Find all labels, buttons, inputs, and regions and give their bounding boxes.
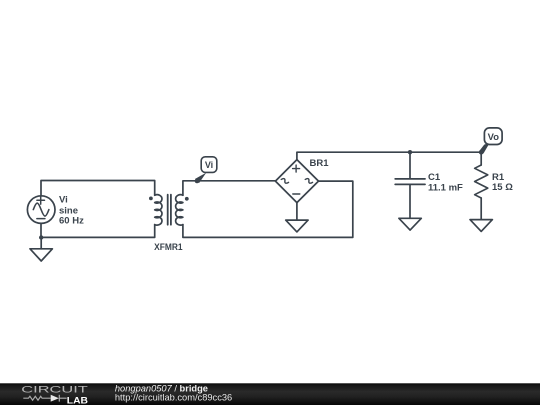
svg-text:LAB: LAB bbox=[67, 395, 88, 405]
svg-text:http://circuitlab.com/c89cc36: http://circuitlab.com/c89cc36 bbox=[115, 393, 232, 403]
net flag Vi bbox=[195, 157, 217, 184]
capacitor C1 bbox=[395, 152, 425, 218]
svg-text:Vi: Vi bbox=[205, 160, 213, 170]
voltage source V1 Vi sine 60 Hz bbox=[27, 196, 55, 224]
svg-text:BR1: BR1 bbox=[310, 158, 330, 169]
wire bottom rail primary loop bbox=[41, 223, 155, 237]
node junction at R1 top bbox=[479, 150, 483, 154]
ground below R1 bbox=[470, 220, 492, 232]
wire bridge top to output rail bbox=[297, 152, 481, 159]
label tilde right BR1 bbox=[305, 177, 313, 184]
svg-text:C1: C1 bbox=[428, 172, 441, 183]
svg-text:Vo: Vo bbox=[488, 131, 500, 142]
bridge rectifier BR1 bbox=[275, 160, 318, 203]
svg-text:15 Ω: 15 Ω bbox=[492, 182, 513, 193]
wire secondary bottom to bridge right bbox=[183, 181, 353, 237]
footer bar bbox=[0, 383, 540, 405]
svg-text:XFMR1: XFMR1 bbox=[154, 242, 183, 253]
svg-text:Vi: Vi bbox=[59, 195, 68, 206]
node junction at C1 top bbox=[408, 150, 412, 154]
wire top rail primary loop bbox=[41, 181, 155, 197]
transformer XFMR1 bbox=[149, 195, 189, 225]
net flag Vo bbox=[479, 128, 502, 155]
ground below bridge bbox=[286, 203, 308, 232]
svg-text:sine: sine bbox=[59, 205, 78, 216]
footer logo resistor-diode glyph bbox=[23, 395, 66, 402]
label R1 value bbox=[492, 172, 513, 193]
svg-text:R1: R1 bbox=[492, 172, 505, 183]
label Vi value bbox=[59, 195, 84, 227]
ground below source bbox=[30, 238, 52, 262]
label tilde left BR1 bbox=[281, 177, 289, 184]
node junction at source bottom bbox=[39, 235, 43, 239]
resistor R1 bbox=[475, 152, 488, 219]
wire secondary top to bridge left bbox=[183, 181, 276, 195]
svg-text:11.1 mF: 11.1 mF bbox=[428, 183, 463, 194]
svg-text:CIRCUIT: CIRCUIT bbox=[21, 385, 88, 395]
label C1 value bbox=[428, 172, 463, 193]
ground below C1 bbox=[399, 218, 421, 230]
svg-text:60 Hz: 60 Hz bbox=[59, 216, 84, 227]
